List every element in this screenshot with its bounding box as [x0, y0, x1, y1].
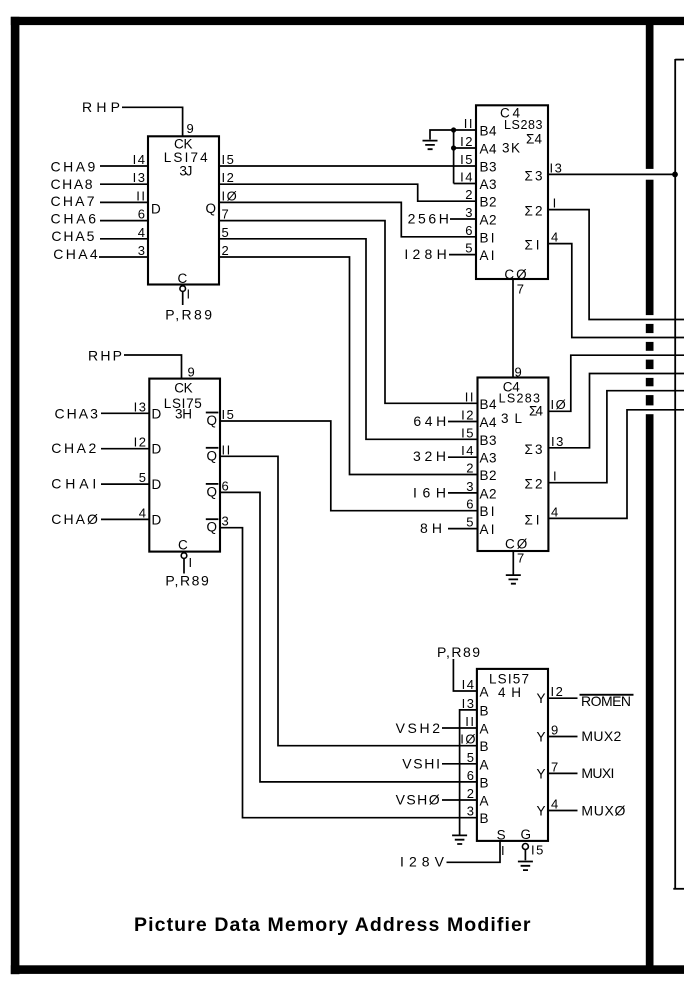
svg-text:B: B [480, 775, 491, 790]
adjacent page border vertical line [674, 59, 676, 889]
svg-text:G: G [521, 827, 534, 842]
svg-text:MUX2: MUX2 [581, 728, 621, 744]
svg-text:4: 4 [138, 225, 147, 240]
svg-text:I2: I2 [134, 435, 148, 450]
svg-text:Q: Q [206, 201, 219, 216]
open circle 4H G pin 15 [522, 844, 528, 850]
svg-text:P,R89: P,R89 [437, 644, 480, 660]
svg-text:Σ4: Σ4 [529, 404, 545, 419]
svg-text:A: A [480, 685, 491, 700]
svg-text:AI: AI [480, 248, 497, 263]
wire RHP to 3J CK pin 9 [122, 107, 183, 136]
svg-text:A4: A4 [480, 142, 499, 157]
svg-text:VSHI: VSHI [402, 755, 440, 771]
wire ground tie B4-A4-A3 vertical [453, 130, 455, 184]
svg-text:6: 6 [138, 207, 147, 222]
right bar gap at wire crossing 6 [645, 405, 655, 414]
wire 3J pin 2 to 3L B2 pin 2 [219, 257, 478, 475]
wire CHA2 to 3H pin 12 [101, 448, 149, 450]
svg-text:I4: I4 [460, 170, 474, 185]
wire VSH2 to 4H A pin 11 [442, 727, 477, 729]
svg-text:II: II [464, 116, 474, 131]
svg-text:A: A [480, 722, 491, 737]
svg-text:CHA9: CHA9 [51, 159, 96, 175]
svg-text:9: 9 [188, 365, 197, 380]
svg-text:Q: Q [207, 413, 220, 428]
right bar gap at wire crossing 3 [645, 351, 655, 360]
svg-text:CHA7: CHA7 [51, 193, 95, 209]
svg-text:I2: I2 [461, 408, 475, 423]
svg-text:I: I [501, 843, 506, 858]
wire 3J pin 5 to 3L B3 pin 15 [219, 239, 478, 439]
svg-text:I4: I4 [133, 152, 147, 167]
svg-text:I4: I4 [461, 443, 475, 458]
right bar gap at wire crossing 1 [645, 315, 655, 324]
IC body U4H LS157 [477, 669, 548, 841]
wire P,R89 to 4H pin 14 [453, 659, 477, 691]
svg-text:4: 4 [551, 504, 560, 519]
svg-text:P,R89: P,R89 [165, 573, 209, 589]
svg-text:4: 4 [551, 230, 560, 245]
svg-text:A: A [480, 794, 491, 809]
ground symbol at 4H pin 13 [452, 835, 467, 845]
svg-text:LSI57: LSI57 [489, 672, 531, 687]
svg-text:7: 7 [551, 759, 560, 774]
wire 128V to 4H S pin 1 [447, 841, 501, 862]
wire 3K S3 pin 13 to bus [548, 173, 675, 175]
svg-text:Σ3: Σ3 [525, 442, 545, 457]
svg-text:5: 5 [466, 515, 475, 530]
svg-text:Σ2: Σ2 [525, 204, 545, 219]
svg-text:ΣI: ΣI [525, 512, 542, 527]
wire CHA1 to 3H pin 5 [101, 483, 149, 485]
svg-text:A4: A4 [480, 415, 499, 430]
wire 4H Y pin 4 stub [548, 810, 578, 812]
svg-text:256H: 256H [408, 211, 449, 227]
svg-text:IØ: IØ [551, 397, 568, 412]
open circle 3H clear pin 1 [181, 553, 187, 559]
wire 3H Q11 to 4H B pin 10 [220, 456, 477, 745]
svg-text:9: 9 [187, 121, 196, 136]
wire 3H Q6 to 4H B pin 6 [220, 492, 477, 782]
svg-text:CHA3: CHA3 [55, 405, 99, 421]
wire 4H Y pin 7 stub [548, 772, 578, 774]
svg-text:I3: I3 [462, 696, 476, 711]
svg-text:D: D [152, 477, 164, 492]
wire RHP to 3H CK pin 9 [124, 355, 182, 379]
svg-text:Q: Q [207, 484, 220, 499]
wire 3L C0 pin 7 to ground [512, 551, 514, 575]
svg-text:3: 3 [465, 205, 474, 220]
svg-text:CK: CK [174, 381, 195, 396]
wire 256H to 3K A2 pin 3 [450, 218, 476, 220]
svg-text:Q: Q [207, 448, 220, 463]
svg-text:RHP: RHP [88, 348, 122, 364]
right bar gap at wire crossing 2 [645, 333, 655, 342]
IC body U3J LS174 [148, 136, 219, 284]
svg-text:I4: I4 [462, 677, 476, 692]
wire 4H G pin 15 stem to ground [524, 850, 526, 861]
svg-text:D: D [152, 406, 164, 421]
svg-text:I3: I3 [134, 399, 148, 414]
svg-text:CHA4: CHA4 [53, 246, 98, 262]
svg-text:I: I [553, 469, 558, 484]
wire 64H to 3L A4 pin 12 [448, 421, 478, 423]
wire CHA0 to 3H pin 4 [101, 518, 149, 520]
svg-text:Q: Q [207, 520, 220, 535]
svg-text:LS283: LS283 [504, 118, 544, 132]
wire 128H to 3K A1 pin 5 [449, 254, 476, 256]
wire 3H Q15 to 3L B1 pin 6 [220, 421, 478, 511]
svg-text:2: 2 [465, 187, 474, 202]
svg-text:4: 4 [551, 797, 560, 812]
wire CHA5 to 3J pin 4 [100, 238, 148, 240]
svg-text:Picture Data Memory Address Mo: Picture Data Memory Address Modifier [134, 914, 531, 936]
wire VSH0 to 4H A pin 2 [442, 799, 477, 801]
svg-text:Σ3: Σ3 [525, 168, 545, 183]
svg-text:I5: I5 [222, 407, 236, 422]
svg-text:3H: 3H [175, 407, 194, 422]
svg-text:I: I [189, 555, 194, 570]
wire 32H to 3L A3 pin 14 [448, 456, 478, 458]
open circle 3J clear pin 1 [180, 286, 186, 292]
overline for ROMEN label [580, 694, 634, 696]
svg-text:CHA2: CHA2 [51, 440, 96, 456]
wire 3J pin 12 to 3K B2 pin 2 [219, 184, 476, 201]
ground symbol at 3K B4 [423, 140, 438, 150]
wire 8H to 3L A1 pin 5 [448, 528, 478, 530]
svg-text:8H: 8H [420, 520, 442, 536]
svg-text:4: 4 [139, 505, 148, 520]
svg-text:I3: I3 [551, 434, 565, 449]
svg-text:S: S [497, 828, 508, 843]
svg-text:9: 9 [515, 365, 524, 380]
svg-text:64H: 64H [413, 413, 446, 429]
svg-text:ΣI: ΣI [525, 238, 542, 253]
ground symbol at 3L C0 [506, 574, 521, 584]
right bar gap at wire crossing 5 [645, 386, 655, 395]
border frame top bar [11, 17, 684, 25]
IC body U3H LS175 [149, 379, 220, 552]
svg-text:B4: B4 [480, 124, 499, 139]
wire 3K S1 pin 4 to bus [548, 244, 684, 338]
svg-text:I5: I5 [222, 152, 236, 167]
wire CHA3 to 3H pin 13 [101, 412, 149, 414]
wire 3J pin 15 to 3K B3 pin 15 [219, 165, 476, 167]
svg-text:5: 5 [222, 225, 231, 240]
svg-text:2: 2 [467, 786, 476, 801]
svg-text:32H: 32H [413, 448, 446, 464]
svg-text:3J: 3J [179, 164, 194, 179]
wire VSH1 to 4H A pin 5 [442, 763, 477, 765]
svg-text:6: 6 [467, 768, 476, 783]
svg-text:B3: B3 [480, 160, 499, 175]
svg-text:I5: I5 [461, 425, 475, 440]
svg-text:II: II [222, 442, 232, 457]
wire 3L S3 pin 13 to bus [548, 374, 684, 448]
junction dot B4 ground tie [451, 127, 456, 132]
ground symbol at 4H G pin 15 [518, 861, 533, 871]
junction dot S3 at page edge [672, 172, 678, 178]
wire to 3K A4 pin 12 [454, 147, 476, 149]
wire 16H to 3L A2 pin 3 [448, 492, 478, 494]
svg-text:5: 5 [467, 750, 476, 765]
svg-text:I: I [553, 196, 558, 211]
svg-text:D: D [152, 512, 164, 527]
svg-text:C: C [178, 271, 190, 286]
svg-text:MUXI: MUXI [581, 765, 614, 781]
svg-text:CHA6: CHA6 [51, 210, 97, 226]
svg-text:CØ: CØ [504, 267, 528, 282]
svg-text:CHA5: CHA5 [51, 228, 94, 244]
svg-text:A3: A3 [480, 451, 499, 466]
svg-text:3: 3 [467, 804, 476, 819]
svg-text:6: 6 [465, 223, 474, 238]
svg-text:B: B [480, 739, 491, 754]
svg-text:7: 7 [222, 207, 231, 222]
svg-text:ROMEN: ROMEN [581, 693, 631, 709]
wire CHA6 to 3J pin 6 [100, 220, 148, 222]
svg-text:P,R89: P,R89 [165, 307, 212, 323]
svg-text:II: II [465, 714, 475, 729]
overline for Q15 output 3H [206, 412, 219, 414]
svg-text:CØ: CØ [505, 537, 529, 552]
svg-text:3K: 3K [502, 141, 522, 156]
svg-text:6: 6 [466, 497, 475, 512]
svg-text:IØ: IØ [460, 732, 477, 747]
border frame left bar [11, 17, 20, 974]
svg-text:I2: I2 [460, 134, 474, 149]
svg-text:2: 2 [466, 461, 475, 476]
wire 4H Y pin 9 stub [548, 736, 578, 738]
svg-text:3: 3 [138, 243, 147, 258]
svg-text:7: 7 [517, 551, 526, 566]
IC body U3L LS283 [478, 378, 549, 552]
svg-text:B4: B4 [480, 397, 499, 412]
svg-text:VSHØ: VSHØ [396, 792, 440, 808]
svg-text:Y: Y [537, 730, 548, 745]
right bar gap at wire crossing 4 [645, 369, 655, 378]
svg-text:CHAØ: CHAØ [51, 511, 98, 527]
adjacent page border top edge [675, 59, 684, 61]
wire 3J pin 7 to 3L B4 pin 11 [219, 221, 478, 404]
wire CHA8 to 3J pin 13 [100, 183, 148, 185]
adjacent page border bottom edge [673, 888, 684, 890]
svg-text:5: 5 [465, 241, 474, 256]
svg-text:I5: I5 [460, 152, 474, 167]
svg-text:AI: AI [480, 522, 497, 537]
IC body U3K LS283 [476, 105, 548, 279]
wire 3L S1 pin 4 to bus [548, 410, 684, 519]
svg-text:Σ2: Σ2 [525, 477, 545, 492]
overline for Q11 output 3H [206, 447, 219, 449]
svg-text:I5: I5 [531, 843, 545, 858]
svg-text:B: B [480, 703, 491, 718]
svg-text:Y: Y [537, 804, 548, 819]
svg-text:I2: I2 [551, 684, 565, 699]
svg-text:5: 5 [139, 470, 148, 485]
svg-text:3: 3 [466, 479, 475, 494]
svg-text:D: D [151, 202, 163, 217]
wire 3H clear pin 1 stem [183, 558, 185, 573]
svg-text:6: 6 [222, 478, 231, 493]
wire 3L S4 pin 10 to bus [548, 355, 684, 411]
svg-text:B: B [480, 811, 491, 826]
svg-text:A2: A2 [480, 486, 499, 501]
wire CHA7 to 3J pin 11 [100, 201, 148, 203]
svg-text:I3: I3 [550, 160, 564, 175]
svg-text:Y: Y [537, 766, 548, 781]
wire CHA9 to 3J pin 14 [100, 165, 148, 167]
overline for Q3 output 3H [206, 518, 219, 520]
svg-text:2: 2 [222, 243, 231, 258]
svg-text:BI: BI [480, 230, 497, 245]
wire 3L S2 pin 1 to bus [548, 391, 684, 483]
svg-text:B2: B2 [480, 195, 499, 210]
svg-text:9: 9 [551, 723, 560, 738]
svg-text:B2: B2 [480, 468, 499, 483]
svg-text:I: I [187, 286, 192, 301]
svg-text:3: 3 [222, 514, 231, 529]
svg-text:BI: BI [480, 504, 497, 519]
wire 4H Y pin 12 stub [548, 697, 578, 699]
svg-text:B3: B3 [480, 433, 499, 448]
wire 3J clear pin 1 stem [182, 291, 184, 305]
svg-text:A3: A3 [480, 177, 499, 192]
svg-text:II: II [465, 389, 475, 404]
wire to 3K A3 pin 14 [454, 183, 476, 185]
svg-text:I3: I3 [133, 170, 147, 185]
svg-text:4H: 4H [498, 685, 523, 700]
svg-text:CHA8: CHA8 [51, 176, 93, 192]
svg-text:IØ: IØ [222, 188, 239, 203]
wire CHA4 to 3J pin 3 [99, 256, 148, 258]
svg-text:I2: I2 [222, 170, 236, 185]
svg-text:II: II [136, 188, 146, 203]
svg-text:D: D [152, 442, 164, 457]
wire 4H B pin 13 to ground [460, 710, 477, 835]
svg-text:MUXØ: MUXØ [581, 802, 625, 818]
wire 3K C0 pin 7 to 3L pin 9 [512, 279, 514, 378]
svg-text:RHP: RHP [82, 99, 120, 115]
svg-text:A2: A2 [480, 213, 499, 228]
overline for Q6 output 3H [206, 483, 219, 485]
wire 3K S2 pin 1 to bus [548, 210, 684, 320]
right bar gap at S3 wire crossing [645, 169, 655, 180]
svg-text:A: A [480, 757, 491, 772]
wire 3H Q3 to 4H B pin 3 [220, 528, 477, 818]
ground stem at 3K B4 [430, 130, 476, 140]
border frame right bus bar [646, 25, 654, 966]
svg-text:Σ4: Σ4 [526, 132, 544, 147]
wire 3J pin 10 to 3K B1 pin 6 [219, 202, 476, 236]
svg-text:C: C [178, 538, 190, 553]
junction dot A4 ground tie [451, 145, 456, 150]
svg-text:Y: Y [537, 691, 548, 706]
border frame bottom bar [11, 965, 684, 974]
svg-text:7: 7 [517, 281, 526, 296]
